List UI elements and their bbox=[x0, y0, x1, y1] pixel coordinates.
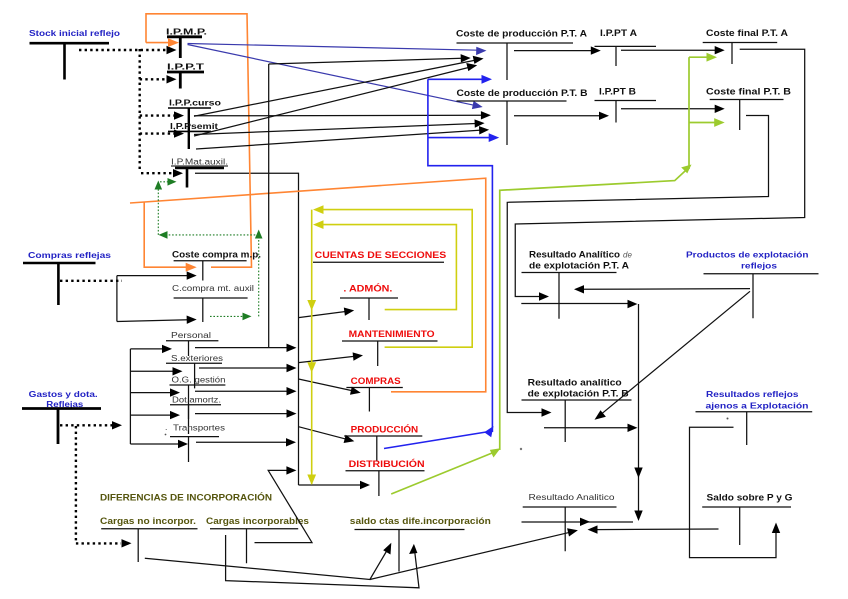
blue elbow: PRODUCCION to Coste de produccion A/B bbox=[384, 75, 499, 449]
svg-text:I.P.PT B: I.P.PT B bbox=[599, 87, 637, 97]
svg-text:.: . bbox=[165, 422, 167, 432]
svg-text:de: de bbox=[623, 251, 632, 260]
T-account: I.P.PT A bbox=[595, 28, 657, 66]
wire: riser from Personal credit up to Coste A fan bbox=[268, 64, 270, 348]
svg-text:I.P.P.curso: I.P.P.curso bbox=[169, 98, 221, 108]
wire+arrow: Saldo debit leftward to Resultado Analitico bbox=[588, 525, 719, 533]
wire+arrow: Resultado B credit to right drop bbox=[544, 424, 638, 432]
T-account: Coste de produccion P.T. B bbox=[457, 88, 589, 145]
T-account: Cargas incorporables bbox=[206, 516, 309, 563]
svg-text:Coste compra m.p.: Coste compra m.p. bbox=[172, 250, 261, 260]
T-account: I.P.Psemit bbox=[168, 121, 218, 149]
T-account: Coste final P.T. A bbox=[703, 28, 789, 64]
T-account: Compras reflejas bbox=[23, 250, 111, 305]
T-account: Resultado Analitico (bottom) bbox=[523, 492, 617, 551]
svg-text:I.P.M.P.: I.P.M.P. bbox=[166, 27, 207, 37]
T-account: Saldo sobre P y G bbox=[702, 493, 792, 546]
wire: Resultados reflejos debit loop to Saldo sobre P y G bbox=[690, 427, 781, 557]
bracket wire: expense distribution bbox=[130, 345, 188, 449]
svg-text:reflejos: reflejos bbox=[741, 261, 777, 271]
T-account: DISTRIBUCION bbox=[346, 458, 426, 496]
wire: Cargas no incorpor. credit to saldo ctas (up arrow) bbox=[145, 543, 391, 580]
black fan: box column to Coste A debit bbox=[269, 58, 462, 64]
yellow loop: ADMON credit up and left bbox=[313, 220, 456, 309]
svg-text:CUENTAS DE SECCIONES: CUENTAS DE SECCIONES bbox=[315, 250, 447, 260]
wire+arrow: Productos diagonal to Resultado analitico B bbox=[595, 291, 751, 420]
svg-text:Personal: Personal bbox=[171, 330, 211, 340]
wire+arrow: I.P.PT A to Coste final A bbox=[621, 49, 716, 51]
svg-text:MANTENIMIENTO: MANTENIMIENTO bbox=[349, 329, 435, 339]
T-account: S.exteriores bbox=[166, 353, 223, 388]
T-account: O.G. gestion bbox=[170, 375, 226, 420]
T-account: Gastos y dota. Reflejas bbox=[22, 389, 101, 444]
wire+arrow: column to DISTRIBUCION debit bbox=[299, 484, 363, 486]
svg-text:I.P.Mat.auxil.: I.P.Mat.auxil. bbox=[171, 157, 228, 167]
svg-text:Resultado Analitico: Resultado Analitico bbox=[529, 492, 615, 502]
wire: compras split to coste compra accounts bbox=[117, 271, 197, 324]
svg-text:Resultados reflejos: Resultados reflejos bbox=[706, 389, 799, 399]
black fan: I.P.P.curso to Coste A debit bbox=[194, 60, 475, 116]
svg-text:DISTRIBUCIÓN: DISTRIBUCIÓN bbox=[349, 458, 425, 469]
T-account: Resultados reflejos ajenos a Explotacion bbox=[696, 389, 813, 445]
svg-text:Gastos y dota.: Gastos y dota. bbox=[29, 389, 98, 399]
wire: Coste final A credit down-left into Resultado A bbox=[515, 49, 804, 301]
T-account: Personal bbox=[166, 330, 218, 356]
wire: right drop down to Resultado Analitico (bottom) bbox=[634, 304, 642, 521]
svg-text:I.P.PT A: I.P.PT A bbox=[600, 28, 638, 38]
black fan: lower to Coste B debit bbox=[196, 130, 481, 149]
zigzag wire: Cargas incorporables credit up into column bbox=[255, 466, 313, 542]
svg-text:Resultado Analítico: Resultado Analítico bbox=[529, 250, 621, 260]
wire+arrow: Coste B to I.P.PT B bbox=[514, 115, 601, 117]
svg-text:Coste final P.T. B: Coste final P.T. B bbox=[706, 87, 792, 97]
svg-text:S.exteriores: S.exteriores bbox=[171, 353, 223, 363]
T-account: COMPRAS bbox=[346, 376, 402, 412]
wire+arrow: Resultado A credit to right drop bbox=[521, 300, 637, 308]
T-account: I.P.P.T bbox=[167, 62, 205, 89]
wire: loop below Cargas incorporables to saldo ctas credit bbox=[226, 535, 419, 588]
dotted wire: compras reflejas out bbox=[60, 280, 122, 282]
svg-text:Saldo sobre P y G: Saldo sobre P y G bbox=[707, 493, 793, 503]
T-account: I.P.Mat.auxil. bbox=[171, 157, 228, 188]
T-account: PRODUCCION bbox=[344, 424, 422, 462]
svg-text:Coste de producción P.T. B: Coste de producción P.T. B bbox=[457, 88, 589, 98]
T-account: Resultado analitico de explotacion P.T. B bbox=[522, 378, 632, 443]
stray dots bbox=[520, 448, 522, 450]
svg-text:Stock inicial reflejo: Stock inicial reflejo bbox=[29, 28, 120, 38]
dotted wire+arrow: gastos down to Cargas no incorpor. bbox=[76, 426, 132, 548]
T-account: I.P.PT B bbox=[595, 87, 657, 123]
svg-text:C.compra mt. auxil: C.compra mt. auxil bbox=[172, 283, 254, 293]
wire+arrow: Resultado Analitico rightward bbox=[522, 518, 634, 526]
svg-text:COMPRAS: COMPRAS bbox=[351, 376, 401, 386]
label: CUENTAS DE SECCIONES bbox=[313, 250, 446, 262]
svg-text:DIFERENCIAS DE INCORPORACIÓN: DIFERENCIAS DE INCORPORACIÓN bbox=[100, 492, 272, 503]
green dotted loop: C.compra mt auxil to I.P.Mat.auxil bbox=[155, 178, 263, 320]
svg-text:Compras reflejas: Compras reflejas bbox=[28, 250, 111, 260]
svg-text:Cargas incorporables: Cargas incorporables bbox=[206, 516, 309, 526]
svg-text:I.P.Psemit: I.P.Psemit bbox=[170, 121, 218, 131]
T-account: Stock inicial reflejo bbox=[29, 28, 120, 80]
wire: saldo ctas to Resultado Analitico (long up-right arrow) bbox=[370, 528, 578, 579]
wire: Coste final B credit down-left into Resultado analitico B bbox=[507, 116, 768, 417]
wires: expense credits to column bbox=[195, 344, 297, 447]
svg-text:Productos de explotación: Productos de explotación bbox=[686, 250, 809, 260]
blue diagonal: I.P.M.P. to Coste de produccion B bbox=[188, 45, 476, 106]
orange loop: coste compra m.p. to I.P.M.P. bbox=[130, 14, 486, 392]
T-account: I.P.P.curso bbox=[168, 98, 221, 132]
black wire: I.P.P.curso to Coste B debit bbox=[194, 114, 483, 117]
svg-text:Transportes: Transportes bbox=[173, 423, 225, 433]
svg-text:. ADMÓN.: . ADMÓN. bbox=[343, 283, 392, 294]
T-account: Transportes bbox=[165, 422, 225, 462]
wire: I.P.Mat.auxil credit to distribution column bbox=[195, 173, 299, 485]
black fan: I.P.Psemit to Coste B debit bbox=[194, 124, 476, 135]
wire+arrow: I.P.PT B to Coste final B bbox=[621, 108, 716, 110]
arrows: column into secciones bbox=[299, 308, 364, 444]
dotted wire+arrow: gastos to expense bracket bbox=[60, 421, 122, 429]
wire+arrow: Coste A to I.P.PT A bbox=[514, 50, 592, 52]
T-account: Coste de produccion P.T. A bbox=[456, 29, 588, 81]
yellow spine down to DISTRIBUCION bbox=[307, 210, 316, 485]
svg-text:I.P.P.T: I.P.P.T bbox=[167, 62, 205, 72]
T-account: saldo ctas dife.incorporacion bbox=[350, 516, 491, 572]
T-account: Productos de explotacion reflejos bbox=[686, 250, 819, 319]
T-account: Dot.amortz. bbox=[170, 395, 221, 435]
T-account: I.P.M.P. bbox=[166, 27, 207, 59]
T-account: Resultado Analitico de explotacion P.T. A bbox=[522, 250, 633, 319]
yellow loop: MANTENIMIENTO credit up and left bbox=[313, 205, 472, 347]
T-account: Coste final P.T. B bbox=[706, 87, 792, 131]
T-account: Cargas no incorpor. bbox=[100, 516, 198, 562]
wire+arrow: Productos to Resultado A (leftward) bbox=[574, 285, 750, 293]
svg-text:de explotación P.T. A: de explotación P.T. A bbox=[529, 261, 630, 271]
T-account: C.compra mt. auxil bbox=[172, 283, 254, 322]
svg-text:Cargas no incorpor.: Cargas no incorpor. bbox=[100, 516, 196, 526]
T-account: ADMON bbox=[340, 283, 398, 321]
T-account: Coste compra m.p. bbox=[172, 250, 261, 281]
blue diagonal: I.P.M.P. to Coste de produccion A bbox=[188, 44, 479, 51]
T-account: MANTENIMIENTO bbox=[342, 329, 438, 366]
dotted wire: stock to I.P. accounts (trunk) bbox=[79, 46, 184, 178]
black fan: I.P.Psemit to Coste A debit bbox=[194, 67, 469, 136]
svg-text:Coste de producción P.T. A: Coste de producción P.T. A bbox=[456, 29, 588, 39]
svg-text:PRODUCCIÓN: PRODUCCIÓN bbox=[351, 424, 419, 435]
green elbow: DISTRIBUCION to Coste final A/B bbox=[391, 53, 725, 494]
svg-text:Dot.amortz.: Dot.amortz. bbox=[172, 395, 221, 405]
svg-text:Coste final P.T. A: Coste final P.T. A bbox=[706, 28, 789, 38]
svg-text:de explotación P.T. B: de explotación P.T. B bbox=[528, 389, 630, 399]
svg-text:ajenos a Explotación: ajenos a Explotación bbox=[706, 401, 809, 411]
svg-text:saldo ctas dife.incorporación: saldo ctas dife.incorporación bbox=[350, 516, 491, 526]
svg-text:O.G. gestión: O.G. gestión bbox=[172, 375, 226, 385]
svg-text:Resultado analítico: Resultado analítico bbox=[528, 378, 623, 388]
